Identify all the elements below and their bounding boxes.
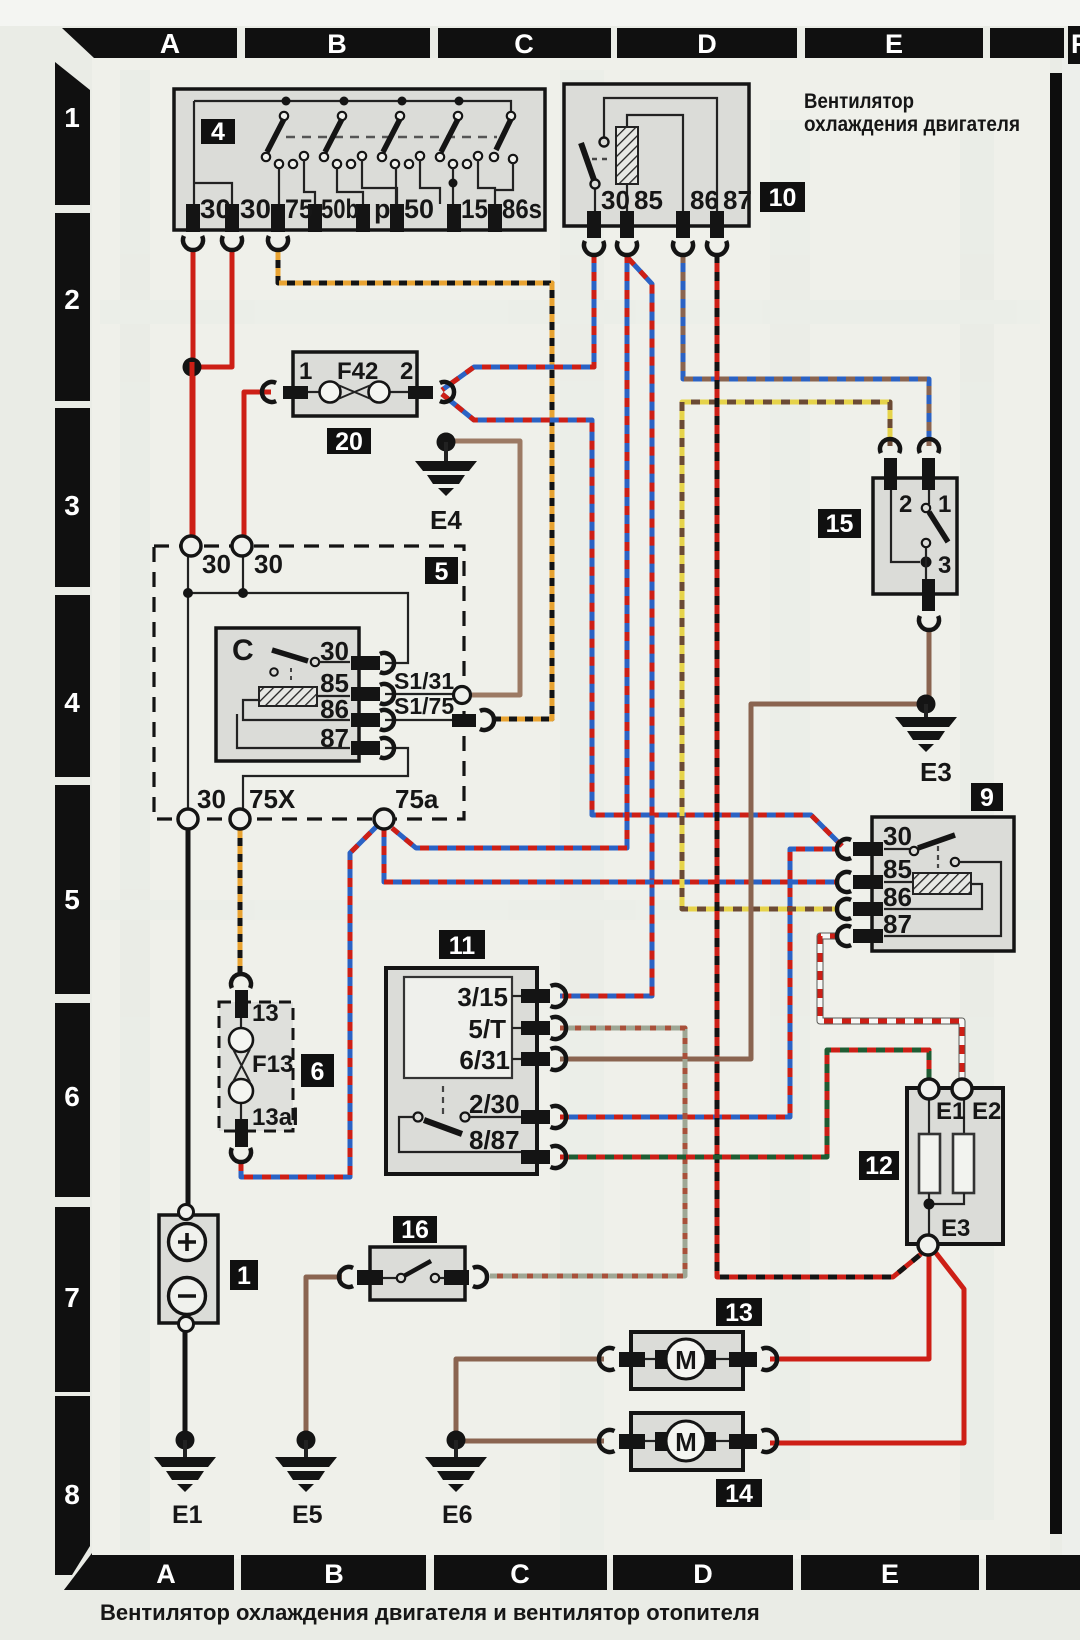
- svg-text:1: 1: [938, 491, 951, 518]
- svg-text:8/87: 8/87: [469, 1125, 520, 1155]
- svg-text:3: 3: [64, 490, 80, 521]
- svg-text:15: 15: [826, 510, 854, 538]
- wire: fuse F42 pin2 to relay9 pin30 (red/blue): [442, 394, 842, 846]
- wire: terminal 75X down to fuse F13 (orange/black): [238, 830, 243, 974]
- ground E5: [275, 1431, 337, 1530]
- svg-text:30: 30: [601, 185, 630, 215]
- svg-text:15: 15: [461, 194, 488, 224]
- svg-text:E5: E5: [292, 1501, 323, 1529]
- relay 9 (heater fan relay): [837, 783, 1014, 951]
- wire: relay9 pin87 to block12 E2 (red/white): [820, 936, 962, 1078]
- wire: relay10 pin30 to fuse F42 pin2 (red/blue): [442, 254, 594, 390]
- terminals 30/30 top of box 5: [181, 536, 201, 556]
- terminals 30 75X 75a bottom of box 5: [178, 809, 198, 829]
- svg-text:5: 5: [435, 558, 449, 586]
- connector S1/31: [454, 687, 471, 704]
- wire: block12 E3 to motor13 (red): [770, 1256, 929, 1359]
- svg-text:C: C: [514, 29, 534, 59]
- wire: relay10 pin87 to block12 E3 (red/black): [717, 254, 921, 1277]
- svg-text:87: 87: [723, 185, 752, 215]
- wire: fuse F42 pin1 to terminal 30b of box5 (red): [244, 392, 271, 536]
- svg-text:E2: E2: [972, 1098, 1001, 1125]
- svg-text:C: C: [232, 634, 254, 667]
- motor 13 (engine cooling fan motor): [599, 1298, 777, 1389]
- svg-text:5: 5: [64, 884, 80, 915]
- svg-text:E1: E1: [936, 1098, 965, 1125]
- svg-text:3: 3: [938, 552, 951, 579]
- svg-text:5/T: 5/T: [468, 1014, 506, 1044]
- right page-edge black bar: [1050, 73, 1062, 1534]
- wire: ignition pin30b red jog to junction: [199, 252, 232, 367]
- svg-text:11: 11: [449, 932, 476, 960]
- svg-text:F42: F42: [337, 358, 378, 385]
- svg-text:85: 85: [883, 854, 912, 884]
- svg-text:6: 6: [64, 1081, 80, 1112]
- svg-text:13: 13: [252, 1000, 279, 1027]
- svg-text:D: D: [693, 1559, 713, 1589]
- svg-text:30: 30: [883, 821, 912, 851]
- svg-text:F13: F13: [252, 1051, 293, 1078]
- svg-text:1: 1: [64, 102, 80, 133]
- fuse F42 (20): [262, 352, 454, 456]
- svg-text:B: B: [327, 29, 347, 59]
- svg-text:6/31: 6/31: [459, 1045, 510, 1075]
- svg-text:87: 87: [320, 723, 349, 753]
- svg-text:E: E: [881, 1559, 899, 1589]
- svg-text:50: 50: [404, 194, 434, 224]
- svg-text:A: A: [160, 28, 180, 59]
- frame: bottom coordinate band: [64, 1555, 1080, 1590]
- wire: relay10 pin85 branch to block11 3/15 (red/blue): [560, 258, 652, 996]
- wire: relay10 pin85 to terminal 75a (red/blue): [392, 254, 627, 848]
- wire: battery plus to box5 terminal 30 (black): [186, 830, 191, 1206]
- svg-text:3/15: 3/15: [457, 982, 508, 1012]
- svg-text:86: 86: [320, 694, 349, 724]
- wire: ground E6 to motors 13 and 14 (brown): [456, 1359, 604, 1441]
- frame: top coordinate band: [62, 26, 1080, 64]
- svg-text:13: 13: [725, 1299, 753, 1327]
- wire: relay10 pin86 to switch15 pin1 (blue/brown): [683, 254, 929, 446]
- svg-text:F: F: [1071, 29, 1080, 59]
- wire: battery minus to ground E1 (black): [183, 1332, 188, 1431]
- ground E4: [415, 433, 477, 536]
- wire: ground E5 to block16 (brown): [306, 1277, 342, 1431]
- svg-text:E6: E6: [442, 1501, 473, 1529]
- svg-text:75: 75: [285, 194, 313, 224]
- svg-text:Вентилятор: Вентилятор: [804, 90, 914, 113]
- fuse 6 (F13, dashed box): [219, 974, 334, 1162]
- svg-text:C: C: [510, 1559, 530, 1589]
- ground E6: [425, 1431, 487, 1530]
- box 5 (ignition feed unit, dashed): [154, 546, 464, 819]
- battery 1: [159, 1205, 258, 1332]
- svg-text:7: 7: [64, 1282, 80, 1313]
- svg-text:20: 20: [335, 428, 363, 456]
- svg-text:2: 2: [899, 491, 912, 518]
- svg-text:30: 30: [200, 194, 231, 224]
- ignition switch 4: [174, 89, 545, 250]
- svg-text:2: 2: [400, 358, 413, 385]
- wire: block12 E3 to motor14 (red): [770, 1253, 964, 1443]
- svg-text:E: E: [885, 29, 903, 59]
- wire: block11 5/T to block16 (grey-green/red): [490, 1028, 685, 1276]
- svg-text:E3: E3: [920, 757, 952, 787]
- svg-text:30: 30: [197, 784, 226, 814]
- connector S1/75: [452, 714, 476, 727]
- wire: terminal 75a to fuse F13 output (red/blue): [241, 826, 377, 1177]
- svg-text:A: A: [156, 1559, 176, 1589]
- frame: left row band: [55, 62, 92, 1590]
- svg-text:Вентилятор охлаждения двигател: Вентилятор охлаждения двигателя и вентил…: [100, 1600, 760, 1625]
- svg-text:16: 16: [401, 1216, 429, 1244]
- wire: switch15 pin3 to ground E3 (brown): [927, 628, 932, 700]
- svg-text:14: 14: [725, 1480, 753, 1508]
- svg-text:4: 4: [64, 687, 80, 718]
- svg-text:1: 1: [299, 358, 312, 385]
- svg-text:87: 87: [883, 909, 912, 939]
- svg-text:13al: 13al: [252, 1104, 299, 1131]
- svg-text:86s: 86s: [502, 194, 542, 224]
- svg-text:50b: 50b: [321, 194, 359, 224]
- motor 14 (heater fan motor): [599, 1413, 777, 1508]
- svg-text:75a: 75a: [395, 784, 439, 814]
- svg-text:12: 12: [865, 1152, 893, 1180]
- wire: block11 8/87 to block12 E1 (green/red): [560, 1050, 929, 1157]
- svg-text:D: D: [697, 29, 717, 59]
- wire: ground E4 to S1/31 (brown): [453, 441, 520, 695]
- svg-text:B: B: [324, 1559, 344, 1589]
- wire: battery positive feed 30 (red, ignition pin30a to box5): [191, 252, 196, 536]
- wire: ignition pin75 to S1/75 (orange/black): [278, 252, 552, 719]
- wire: block11 2/30 to relay9 pin30 (red/blue): [560, 849, 838, 1117]
- svg-text:S1/75: S1/75: [394, 693, 454, 719]
- switch 16 (heater fan switch): [339, 1216, 487, 1300]
- svg-text:86: 86: [883, 882, 912, 912]
- svg-text:M: M: [675, 1427, 697, 1457]
- relay 10 (engine cooling fan relay): [564, 84, 805, 255]
- svg-text:M: M: [675, 1345, 697, 1375]
- svg-text:30: 30: [240, 194, 271, 224]
- svg-text:E1: E1: [172, 1501, 203, 1529]
- svg-text:E4: E4: [430, 505, 462, 535]
- svg-text:8: 8: [64, 1479, 80, 1510]
- svg-text:p: p: [374, 194, 391, 224]
- svg-text:4: 4: [211, 118, 225, 146]
- svg-text:75X: 75X: [249, 784, 296, 814]
- relay C inside box 5: [216, 628, 394, 761]
- svg-text:охлаждения двигателя: охлаждения двигателя: [804, 113, 1020, 136]
- svg-text:10: 10: [769, 184, 797, 212]
- svg-text:85: 85: [634, 185, 663, 215]
- svg-text:S1/31: S1/31: [394, 668, 454, 694]
- svg-text:1: 1: [237, 1262, 251, 1290]
- svg-text:E3: E3: [941, 1215, 970, 1242]
- svg-text:9: 9: [980, 784, 994, 812]
- svg-text:30: 30: [254, 549, 283, 579]
- svg-text:30: 30: [320, 636, 349, 666]
- node: red junction dot: [183, 358, 202, 377]
- wire: switch15 pin2 to relay9 pin86 (yellow/black): [682, 402, 890, 909]
- svg-text:6: 6: [311, 1058, 325, 1086]
- wire: terminal 75a to relay9 pin85 (red/blue): [384, 828, 839, 882]
- block 12 (blower resistor pack): [859, 1079, 1003, 1255]
- svg-text:86: 86: [690, 185, 719, 215]
- wire: ground E3 to block11 6/31 (brown): [560, 704, 920, 1059]
- block 11 (heater control unit): [386, 930, 566, 1174]
- ground E1: [154, 1431, 216, 1530]
- svg-text:30: 30: [202, 549, 231, 579]
- svg-text:2/30: 2/30: [469, 1089, 520, 1119]
- ground E3: [895, 695, 957, 788]
- switch 15 (coolant temperature switch): [818, 439, 957, 630]
- wire: red feed junction down to terminal 30 of box5: [190, 362, 195, 536]
- svg-text:2: 2: [64, 284, 80, 315]
